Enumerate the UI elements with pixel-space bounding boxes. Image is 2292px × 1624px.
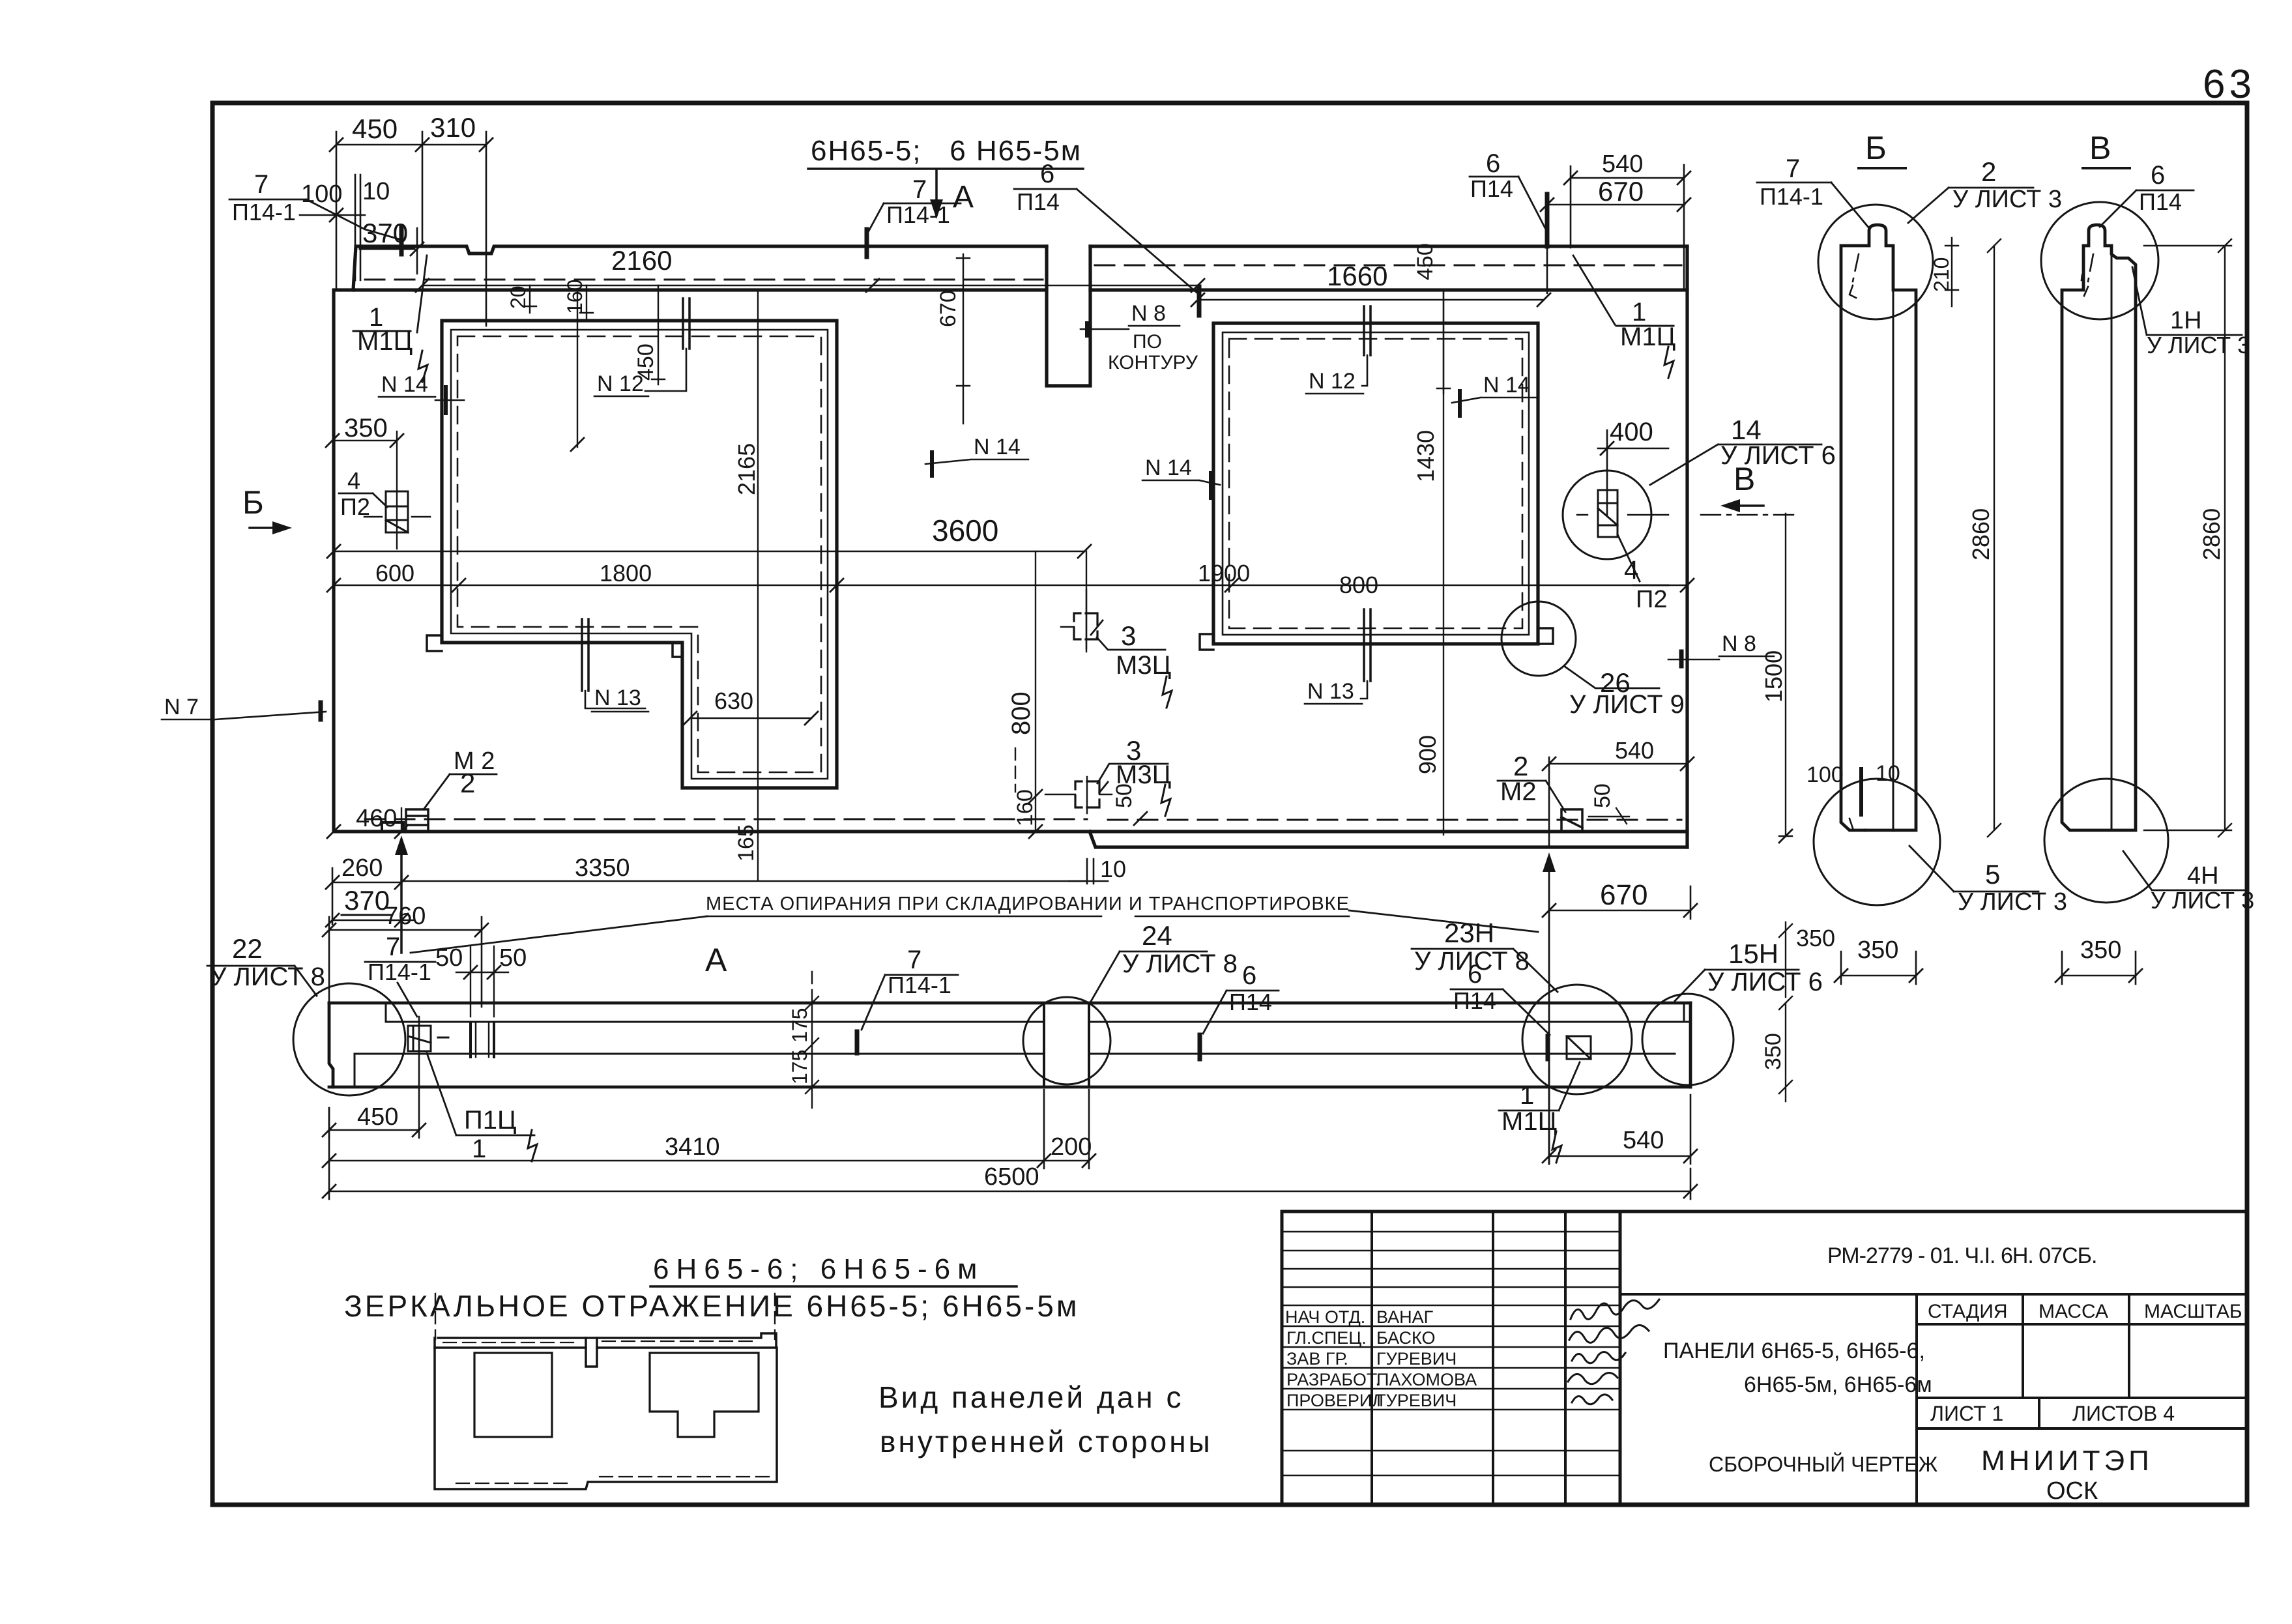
svg-text:3: 3	[1121, 620, 1136, 651]
N 7 callout (left edge)	[164, 695, 199, 719]
embed P2 right in circle	[1563, 471, 1651, 559]
dim 460 bottom-left	[334, 808, 401, 832]
svg-text:N 8: N 8	[1131, 301, 1166, 326]
plan: main outline	[334, 290, 1687, 832]
dim 760	[329, 917, 482, 1007]
embed P2 left	[386, 491, 408, 532]
label 7 P14-1 (A-A left)	[368, 933, 431, 985]
N 14 callout 3 (opening2 left)	[1145, 456, 1192, 480]
svg-text:175: 175	[788, 1008, 811, 1043]
label 1 M1C (A-A)	[1501, 1081, 1557, 1136]
dim 350 left	[344, 414, 388, 442]
svg-text:ПАНЕЛИ 6Н65-5, 6Н65-6,: ПАНЕЛИ 6Н65-5, 6Н65-6,	[1663, 1339, 1925, 1363]
svg-text:N 13: N 13	[594, 686, 641, 710]
plan: slot in top edge	[1047, 246, 1090, 386]
circle top B	[1818, 205, 1933, 319]
dim 2860 (V)	[2218, 239, 2231, 837]
svg-text:10: 10	[1100, 856, 1126, 882]
label 6 P14 (section V)	[2139, 161, 2182, 215]
top-left dim chain level1 450/310	[336, 132, 486, 326]
dims 175/175 (A-A)	[811, 972, 813, 1002]
svg-text:ГЛ.СПЕЦ.: ГЛ.СПЕЦ.	[1286, 1328, 1367, 1348]
svg-text:50: 50	[499, 944, 527, 972]
svg-text:А: А	[705, 942, 727, 978]
dim 450 (A-A left bottom)	[329, 1017, 419, 1138]
sketch slot	[586, 1338, 597, 1367]
plan: bottom dashed line	[365, 819, 1087, 820]
svg-text:ЛИСТОВ 4: ЛИСТОВ 4	[2072, 1402, 2175, 1425]
svg-text:П2: П2	[1636, 586, 1667, 613]
arrow up right (support point)	[1548, 858, 1550, 1164]
level2 100/10	[300, 175, 365, 280]
svg-text:1800: 1800	[600, 560, 652, 587]
svg-text:2: 2	[460, 768, 475, 798]
svg-text:У ЛИСТ 9: У ЛИСТ 9	[1569, 690, 1685, 719]
label 2 U LIST 3	[1952, 156, 2062, 213]
svg-text:М3Ц: М3Ц	[1116, 651, 1171, 680]
section mark B(В) right	[1734, 461, 1755, 497]
dim 540 bottom right	[1549, 757, 1687, 847]
label 6 P14 (A-A 2)	[1453, 960, 1496, 1014]
opening 1 corner tab	[427, 635, 442, 651]
svg-text:П14: П14	[2139, 188, 2182, 215]
A-A outline top/bottom	[329, 1003, 1690, 1087]
svg-text:6: 6	[1040, 160, 1054, 188]
svg-text:50: 50	[1112, 783, 1137, 808]
svg-text:6Н65-5м, 6Н65-6м: 6Н65-5м, 6Н65-6м	[1744, 1372, 1932, 1397]
svg-text:ЗЕРКАЛЬНОЕ ОТРАЖЕНИЕ 6Н65-5;: ЗЕРКАЛЬНОЕ ОТРАЖЕНИЕ 6Н65-5; 6Н65-5м	[344, 1289, 1079, 1323]
svg-text:7: 7	[254, 170, 268, 199]
svg-text:МАСШТАБ: МАСШТАБ	[2144, 1301, 2242, 1322]
vertical dim 1500	[1779, 514, 1792, 836]
svg-text:Б: Б	[242, 484, 264, 521]
dim 6500	[329, 1108, 1690, 1199]
svg-text:РМ-2779 - 01. Ч.I. 6Н. 07СБ.: РМ-2779 - 01. Ч.I. 6Н. 07СБ.	[1827, 1243, 2096, 1268]
svg-text:МАССА: МАССА	[2038, 1301, 2108, 1322]
label 24 U LIST 8	[1122, 920, 1238, 978]
N 13 callout opening1	[582, 619, 588, 691]
svg-text:1: 1	[472, 1135, 486, 1163]
N 14 callout 4 (opening2 right)	[1483, 373, 1530, 398]
witness vertical x886	[577, 290, 578, 447]
sketch opening right L	[650, 1353, 759, 1437]
plan title 6H65-5; 6 H65-5m	[811, 135, 1082, 167]
svg-text:6: 6	[1242, 961, 1256, 990]
svg-text:БАСКО: БАСКО	[1376, 1328, 1435, 1348]
svg-text:У ЛИСТ 3: У ЛИСТ 3	[1952, 186, 2062, 213]
sketch dashed bottom	[456, 1483, 573, 1484]
svg-text:7: 7	[912, 175, 927, 204]
label 6 P14 (A-A 1)	[1229, 961, 1272, 1015]
svg-text:ПАХОМОВА: ПАХОМОВА	[1376, 1370, 1477, 1389]
svg-text:350: 350	[344, 414, 388, 442]
svg-text:670: 670	[936, 290, 961, 327]
svg-text:10: 10	[1876, 761, 1900, 786]
N 12 callout opening2	[1364, 306, 1371, 355]
svg-text:ОСК: ОСК	[2046, 1477, 2098, 1505]
svg-text:760: 760	[384, 903, 426, 930]
svg-text:2160: 2160	[611, 245, 672, 276]
svg-text:450: 450	[357, 1103, 398, 1131]
svg-text:165: 165	[734, 824, 759, 862]
svg-text:4: 4	[1624, 556, 1638, 585]
dim 10 with double tick	[1069, 859, 1108, 884]
svg-text:2: 2	[1981, 156, 1996, 187]
opening 2 inner	[1223, 332, 1529, 635]
svg-text:100: 100	[301, 181, 342, 208]
svg-text:ГУРЕВИЧ: ГУРЕВИЧ	[1376, 1349, 1457, 1369]
svg-text:П14-1: П14-1	[1760, 183, 1823, 210]
svg-text:НАЧ ОТД.: НАЧ ОТД.	[1285, 1307, 1365, 1327]
label 1 M1C top-left	[357, 303, 413, 356]
embed P1C block	[408, 1026, 431, 1051]
plan: bottom-left step notch	[382, 822, 403, 832]
svg-text:540: 540	[1623, 1127, 1664, 1154]
left table horizontals	[1282, 1232, 1620, 1287]
svg-text:П1Ц: П1Ц	[464, 1106, 517, 1135]
svg-text:1500: 1500	[1760, 650, 1787, 703]
dims 540/670 top right	[1571, 165, 1684, 290]
circle 26 U LIST 9	[1501, 602, 1576, 676]
svg-text:6: 6	[1486, 149, 1500, 178]
vertical dim line 1430/900	[1443, 290, 1444, 835]
label 7 P14-1 (A-A mid)	[888, 946, 951, 998]
svg-text:3410: 3410	[665, 1133, 720, 1161]
svg-text:900: 900	[1414, 735, 1441, 774]
svg-text:50: 50	[435, 944, 463, 972]
label 7 P14-1 (section B)	[1760, 154, 1823, 210]
svg-text:1430: 1430	[1412, 430, 1439, 482]
svg-text:П14: П14	[1229, 989, 1272, 1015]
svg-text:7: 7	[907, 946, 921, 974]
rotated 450 right	[1437, 290, 1450, 394]
A letter (A-A)	[705, 942, 727, 978]
svg-text:6: 6	[2151, 161, 2165, 190]
name rows text	[1285, 1307, 1477, 1410]
svg-text:800: 800	[1339, 572, 1378, 598]
svg-text:N 13: N 13	[1307, 679, 1354, 704]
P14 tick (A-A right2)	[1546, 1036, 1550, 1059]
svg-text:1660: 1660	[1327, 261, 1387, 291]
dim 350 (B bottom)	[1841, 951, 1916, 984]
670 vertical dim at slot	[957, 254, 970, 424]
P14 tick (A-A right1)	[1198, 1035, 1202, 1059]
section mark A arrow (top)	[935, 171, 938, 215]
dim 3350	[575, 854, 630, 882]
left table verticals	[1372, 1211, 1620, 1505]
svg-text:N 12: N 12	[1309, 369, 1356, 394]
svg-text:24: 24	[1142, 920, 1172, 951]
label 6 P14 (top right)	[1470, 149, 1513, 202]
dim 350 (V bottom)	[2062, 951, 2136, 984]
sborochnyi chertezh	[1709, 1453, 1938, 1476]
svg-text:350: 350	[2080, 936, 2121, 964]
svg-text:350: 350	[1796, 925, 1835, 951]
N 8 callout (right edge)	[1722, 631, 1756, 656]
label 15H U LIST 6	[1707, 938, 1823, 996]
svg-text:В: В	[2089, 130, 2111, 166]
section V body	[2062, 225, 2136, 830]
svg-text:У ЛИСТ 6: У ЛИСТ 6	[1720, 441, 1836, 470]
svg-text:ЛИСТ 1: ЛИСТ 1	[1930, 1402, 2003, 1425]
svg-text:N 14: N 14	[1145, 456, 1192, 480]
section B label	[1865, 130, 1887, 166]
label 1 M1C top-right	[1620, 298, 1675, 351]
A-A left edge	[329, 1003, 333, 1087]
svg-text:14: 14	[1731, 414, 1762, 445]
dim 540 (A-A right)	[1549, 1069, 1690, 1164]
svg-text:600: 600	[375, 560, 414, 587]
svg-text:7: 7	[1786, 154, 1800, 183]
svg-text:ГУРЕВИЧ: ГУРЕВИЧ	[1376, 1391, 1457, 1410]
tick for 50 dim	[1134, 812, 1147, 825]
svg-text:2165: 2165	[733, 443, 760, 495]
svg-text:N 14: N 14	[1483, 373, 1530, 398]
svg-text:У ЛИСТ 8: У ЛИСТ 8	[210, 963, 325, 991]
svg-text:1Н: 1Н	[2170, 307, 2202, 334]
plan: top ledge strip top edge (right segment)	[1090, 244, 1687, 248]
svg-text:540: 540	[1602, 151, 1643, 178]
A-A mid line	[355, 1053, 1675, 1055]
svg-text:У ЛИСТ 6: У ЛИСТ 6	[1707, 968, 1823, 996]
dim 2860 (B)	[1988, 239, 2001, 837]
label 4 P2 right	[1624, 556, 1667, 613]
svg-text:7: 7	[386, 933, 400, 961]
svg-text:630: 630	[714, 688, 753, 714]
big vertical divider	[1619, 1211, 1622, 1505]
svg-text:670: 670	[1600, 879, 1647, 911]
stadiya massa masshtab	[1915, 1294, 1918, 1505]
svg-text:160: 160	[1013, 789, 1037, 826]
N 14 callout 1 (opening1 left)	[381, 372, 428, 397]
dims 50 50 (A-A)	[435, 944, 527, 972]
svg-text:210: 210	[1930, 257, 1953, 292]
svg-text:ПРОВЕРИЛ: ПРОВЕРИЛ	[1286, 1391, 1384, 1410]
svg-text:450: 450	[1413, 243, 1438, 280]
sleeve verticals 50/50	[471, 1022, 494, 1057]
sketch outline	[438, 1333, 776, 1348]
opening 2 dashed	[1229, 339, 1522, 628]
svg-text:внутренней стороны: внутренней стороны	[880, 1425, 1213, 1458]
svg-text:СБОРОЧНЫЙ ЧЕРТЕЖ: СБОРОЧНЫЙ ЧЕРТЕЖ	[1709, 1453, 1938, 1476]
svg-text:N 14: N 14	[974, 435, 1021, 459]
small vertical dims 20/160/450 under 2160 line	[523, 285, 536, 313]
svg-text:100: 100	[1806, 762, 1844, 787]
svg-text:СТАДИЯ: СТАДИЯ	[1928, 1301, 2008, 1322]
svg-text:310: 310	[430, 112, 476, 143]
svg-text:1900: 1900	[1198, 560, 1250, 587]
doc number	[1827, 1243, 2096, 1268]
dim 350 rotated (A-A right)	[1779, 996, 1792, 1101]
N 13 callout opening2	[1364, 609, 1371, 681]
dim 400	[1610, 418, 1653, 446]
mesta opiraniya text	[706, 893, 1350, 914]
label 2 M2 right + embed	[1561, 809, 1582, 832]
svg-text:370: 370	[344, 885, 390, 916]
svg-text:800: 800	[1007, 691, 1036, 735]
sheet frame	[212, 103, 2247, 1505]
plan: top ledge strip top edge (left segment with notch)	[353, 246, 1047, 290]
label 7 P14-1 top middle	[886, 175, 950, 228]
A-A ledge line	[386, 1003, 1684, 1022]
svg-text:350: 350	[1857, 936, 1898, 964]
signatures (squiggles)	[1568, 1299, 1659, 1404]
sketch body	[435, 1338, 777, 1489]
circle bottom V	[2044, 779, 2168, 903]
svg-text:23Н: 23Н	[1444, 918, 1494, 948]
handwritten note	[878, 1380, 1213, 1458]
plan: strip dashed line left	[365, 279, 1043, 281]
svg-text:4Н: 4Н	[2187, 862, 2219, 890]
level3 370	[362, 218, 408, 248]
svg-text:ЗАВ ГР.: ЗАВ ГР.	[1286, 1349, 1348, 1369]
circles on A-A	[293, 983, 405, 1095]
svg-text:П14-1: П14-1	[886, 201, 950, 228]
svg-text:670: 670	[1598, 176, 1644, 207]
svg-text:N 7: N 7	[164, 695, 199, 719]
svg-text:Вид панелей дан с: Вид панелей дан с	[878, 1380, 1183, 1414]
plan: bottom ledge strip (right part)	[1090, 832, 1687, 847]
circle top V	[2041, 202, 2158, 319]
witness dashed verticals	[435, 1294, 775, 1339]
N 8 callout (slot, по контуру)	[1108, 301, 1198, 373]
dim 210	[1945, 238, 1958, 306]
svg-text:ВАНАГ: ВАНАГ	[1376, 1307, 1434, 1327]
panel name	[1663, 1339, 1932, 1397]
label 4H U LIST 3	[2151, 862, 2254, 914]
M1C embed block (A-A)	[1567, 1036, 1591, 1059]
label 7 P14-1 top far left	[232, 170, 296, 225]
svg-text:Б: Б	[1865, 130, 1887, 166]
dims 260/370 bottom left	[341, 854, 383, 882]
vertical dim 800/160	[1035, 551, 1036, 832]
svg-text:350: 350	[1761, 1033, 1786, 1070]
svg-text:3600: 3600	[932, 514, 998, 547]
label M2 left	[454, 747, 495, 798]
svg-text:1: 1	[1520, 1081, 1534, 1110]
svg-text:200: 200	[1051, 1133, 1092, 1161]
svg-text:N 8: N 8	[1722, 631, 1756, 656]
svg-text:2860: 2860	[1967, 508, 1994, 560]
A-A right edge	[1689, 1003, 1692, 1087]
label 22 U LIST 8	[210, 933, 325, 991]
svg-text:6500: 6500	[984, 1163, 1039, 1191]
section B body	[1841, 225, 1916, 830]
arrow up left (support point)	[400, 841, 403, 953]
opening 1 inner	[451, 330, 828, 779]
svg-text:450: 450	[633, 343, 658, 381]
svg-text:63: 63	[2203, 62, 2256, 107]
dim 50 right	[1590, 783, 1615, 808]
opening 1 step corner tab	[673, 643, 682, 657]
label 5 U LIST 3	[1958, 859, 2067, 916]
svg-text:М2: М2	[1500, 777, 1537, 806]
opening 1 dashed	[457, 336, 821, 772]
label 3 M3C lower	[1075, 781, 1099, 807]
svg-text:2: 2	[1513, 751, 1528, 781]
N 12 callout opening1	[683, 298, 689, 349]
P14-1 tick (A-A mid)	[855, 1032, 860, 1053]
label 3 M3C upper	[1074, 613, 1097, 639]
mirror title	[653, 1253, 984, 1285]
svg-text:П14: П14	[1017, 188, 1060, 215]
label P1C (A-A)	[464, 1106, 517, 1163]
opening 2 outer	[1213, 323, 1538, 644]
svg-text:5: 5	[1985, 859, 2000, 890]
label 6 P14 top middle	[1017, 160, 1060, 215]
svg-text:У ЛИСТ 8: У ЛИСТ 8	[1122, 950, 1238, 978]
svg-text:4: 4	[347, 467, 360, 494]
svg-text:22: 22	[232, 933, 263, 964]
svg-text:160: 160	[563, 280, 587, 314]
label 23H U LIST 8	[1414, 918, 1530, 976]
dim 1660	[1198, 299, 1544, 301]
N 14 callout 2 (right of opening1)	[974, 435, 1021, 459]
svg-text:КОНТУРУ: КОНТУРУ	[1108, 352, 1198, 373]
svg-text:2860: 2860	[2198, 508, 2225, 560]
MNIITEP OSK	[1981, 1445, 2153, 1505]
svg-text:50: 50	[1590, 783, 1615, 808]
label 1H U LIST 3	[2147, 307, 2250, 358]
label 14 U LIST 6	[1720, 414, 1836, 470]
svg-text:N 14: N 14	[381, 372, 428, 397]
svg-text:П14: П14	[1453, 987, 1496, 1014]
svg-text:П2: П2	[340, 493, 370, 520]
svg-text:540: 540	[1615, 737, 1654, 764]
svg-text:3350: 3350	[575, 854, 630, 882]
svg-text:МНИИТЭП: МНИИТЭП	[1981, 1445, 2153, 1477]
vertical dim line 2165/165	[757, 290, 759, 880]
opening 1 outer	[442, 321, 837, 788]
dim line 600 1800 1900	[334, 585, 1687, 587]
dim 2160	[422, 285, 1198, 287]
svg-text:П14: П14	[1470, 175, 1513, 202]
label 4 P2 left	[340, 467, 370, 520]
svg-text:20: 20	[506, 285, 530, 309]
svg-text:400: 400	[1610, 418, 1653, 446]
svg-text:РАЗРАБОТ.: РАЗРАБОТ.	[1286, 1370, 1380, 1389]
svg-text:6Н65-6; 6Н65-6м: 6Н65-6; 6Н65-6м	[653, 1253, 984, 1285]
svg-text:А: А	[953, 180, 974, 214]
dim 630 in opening1	[714, 688, 753, 714]
A-A slot verticals (200 gap)	[1044, 1003, 1089, 1087]
svg-text:6: 6	[1468, 960, 1482, 989]
embed M2 left block	[406, 809, 428, 832]
dim 670 bottom right of plan	[1600, 879, 1647, 911]
svg-text:10: 10	[362, 178, 390, 205]
svg-text:175: 175	[788, 1050, 811, 1084]
opening 2 corner tabs	[1200, 634, 1213, 650]
svg-text:260: 260	[341, 854, 383, 882]
svg-text:ПО: ПО	[1133, 331, 1162, 353]
sketch opening left	[474, 1353, 552, 1437]
svg-text:15Н: 15Н	[1728, 938, 1778, 969]
dims 100/10 bottom B	[1806, 761, 1900, 787]
svg-text:П14-1: П14-1	[232, 199, 296, 225]
plan: right edge	[1685, 246, 1689, 847]
circle bottom B	[1814, 779, 1940, 905]
dim 3410 / 200	[329, 1090, 1089, 1168]
svg-text:МЕСТА ОПИРАНИЯ ПРИ СКЛАДИРО: МЕСТА ОПИРАНИЯ ПРИ СКЛАДИРОВАНИИ И ТРАНС…	[706, 893, 1350, 914]
svg-text:460: 460	[356, 805, 397, 832]
section mark B(Б) left	[242, 484, 264, 521]
center dim line 3600	[334, 551, 1084, 553]
plan: strip dashed line right	[1095, 265, 1681, 267]
svg-text:450: 450	[352, 113, 398, 144]
